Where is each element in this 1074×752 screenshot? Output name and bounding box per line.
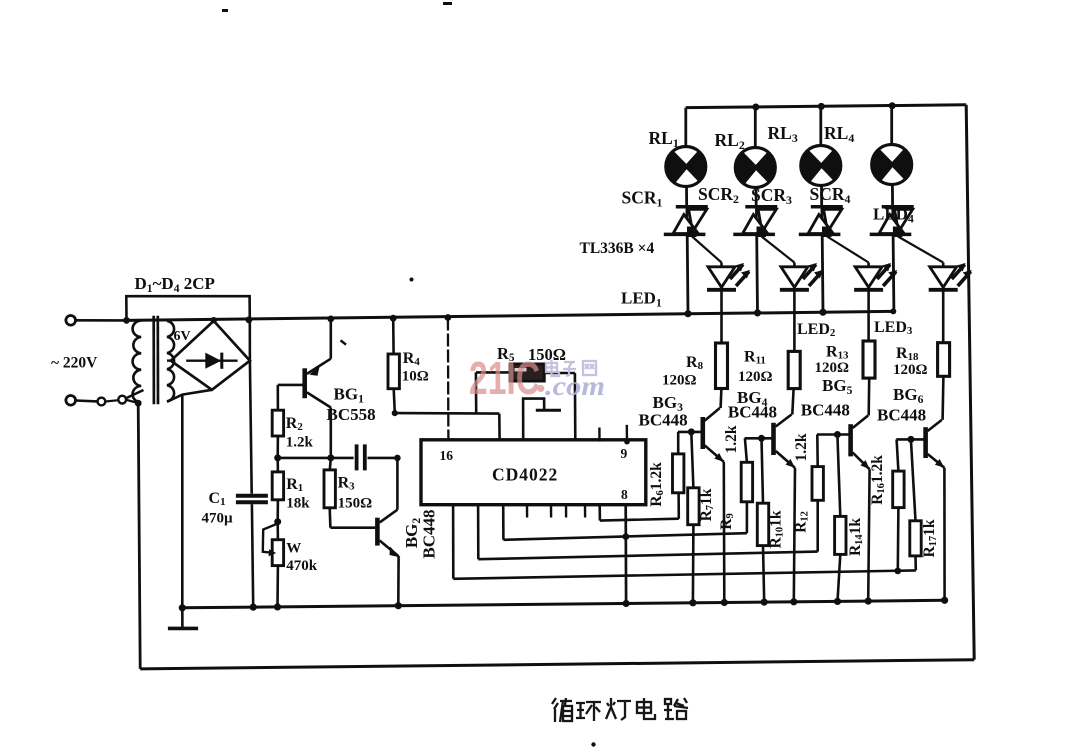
node SCR1 rail xyxy=(685,310,692,317)
svg-text:150Ω: 150Ω xyxy=(338,496,373,512)
label BG2 BC448 xyxy=(402,509,439,558)
label R6 1.2k xyxy=(648,462,666,507)
thyristor SCR4 xyxy=(870,207,914,312)
resistor R4 xyxy=(388,318,399,413)
svg-text:BC448: BC448 xyxy=(728,403,777,422)
node bypass rail crossing xyxy=(246,316,253,323)
pin 9 stub xyxy=(599,425,629,445)
svg-text:9: 9 xyxy=(621,446,628,461)
label R12 1.2k xyxy=(792,433,810,533)
capacitor C2 xyxy=(278,444,398,470)
label SCR1 xyxy=(622,188,663,210)
wire ground bus xyxy=(182,600,944,608)
resistor R7 xyxy=(688,432,699,607)
svg-text:470µ: 470µ xyxy=(202,511,234,527)
svg-text:LED4: LED4 xyxy=(873,205,914,226)
svg-text:21IC: 21IC xyxy=(469,352,540,404)
svg-text:1.2k: 1.2k xyxy=(793,433,810,461)
resistor R11 120 xyxy=(788,351,800,388)
label R14 1k xyxy=(847,518,865,556)
resistor R18 120 xyxy=(938,343,950,377)
svg-text:18k: 18k xyxy=(286,496,310,512)
wire output C to R16 R17 xyxy=(453,505,916,579)
op-amp U1 CD4022 IC body xyxy=(421,440,646,505)
speck marks xyxy=(222,2,596,747)
switch S xyxy=(98,390,144,405)
label BG6 BC448 xyxy=(877,385,926,425)
label R7 1k xyxy=(698,488,716,521)
label R13 120 xyxy=(815,344,850,377)
svg-text:R61.2k: R61.2k xyxy=(648,462,666,507)
wire secondary to ground bus xyxy=(179,395,186,612)
label R8 120 xyxy=(662,354,704,389)
svg-text:TL336B ×4: TL336B ×4 xyxy=(580,240,655,257)
svg-text:120Ω: 120Ω xyxy=(815,360,850,376)
thyristor SCR1 xyxy=(664,207,708,314)
svg-text:1.2k: 1.2k xyxy=(286,435,314,451)
svg-text:120Ω: 120Ω xyxy=(893,362,928,378)
terminal N input xyxy=(66,396,97,406)
resistor R3 xyxy=(324,458,335,528)
label RL2 xyxy=(715,130,745,152)
label R1 18k xyxy=(286,476,310,512)
node SCR3 rail xyxy=(820,309,827,316)
label R2 1.2k xyxy=(286,415,314,451)
bridge rectifier D1-D4 xyxy=(171,321,250,390)
label R10 1k xyxy=(768,510,786,548)
led LED4 xyxy=(929,263,972,343)
label LED3 xyxy=(874,319,913,337)
svg-text:6V: 6V xyxy=(174,329,191,344)
label R3 150ohm xyxy=(338,475,373,512)
svg-text:BC558: BC558 xyxy=(327,405,376,424)
label RL3 xyxy=(768,123,798,145)
node bridge top vertex xyxy=(211,317,217,323)
node SCR2 rail xyxy=(754,309,761,316)
svg-text:LED1: LED1 xyxy=(621,289,662,310)
svg-text:120Ω: 120Ω xyxy=(738,369,773,385)
label R5 150ohm xyxy=(497,344,566,364)
svg-text:BC448: BC448 xyxy=(801,401,850,420)
node R2-R1 xyxy=(274,454,281,461)
node R4 rail xyxy=(390,315,397,322)
pin stubs bottom xyxy=(527,505,585,518)
capacitor C1 xyxy=(236,496,268,503)
resistor R6 xyxy=(673,432,684,493)
wire SCR3 gate xyxy=(827,237,869,263)
transistor BG3 xyxy=(678,389,728,607)
label D1~D4 2CP xyxy=(135,274,215,295)
thyristor SCR3 xyxy=(799,207,843,312)
resistor R16 xyxy=(893,439,904,571)
label W 470k xyxy=(286,541,318,575)
transformer T primary winding xyxy=(133,321,142,404)
resistor R1 xyxy=(272,458,283,522)
wire SCR4 gate xyxy=(898,237,943,263)
label 6V xyxy=(174,329,191,344)
node wireA pin8 crossing xyxy=(622,533,629,540)
lamp RL4 xyxy=(872,106,912,207)
wire right border xyxy=(966,105,974,660)
resistor R14 xyxy=(834,435,846,606)
label LED2 xyxy=(797,321,835,339)
wire output B to R12 xyxy=(478,500,818,559)
wire C1 to bus xyxy=(250,504,257,611)
node BG1 collector xyxy=(327,454,334,461)
svg-text:SCR2: SCR2 xyxy=(698,184,739,206)
wire IC reset loop xyxy=(523,399,561,442)
svg-text:SCR4: SCR4 xyxy=(810,184,851,206)
svg-text:SCR1: SCR1 xyxy=(622,188,663,210)
label R11 120 xyxy=(738,349,773,386)
node BG3 base xyxy=(688,428,695,435)
wire R4 to IC clock xyxy=(395,413,500,441)
node BG5 base xyxy=(834,431,841,438)
lamp RL2 xyxy=(735,107,775,207)
resistor R12 xyxy=(812,435,823,501)
svg-text:~ 220V: ~ 220V xyxy=(51,355,98,372)
resistor R5 xyxy=(476,364,575,442)
svg-text:W: W xyxy=(286,541,301,557)
label SCR3 xyxy=(751,185,792,207)
caption xunhuandenglu circuit title xyxy=(552,698,688,722)
label LED4 xyxy=(873,205,914,226)
wire output A to R9 xyxy=(503,502,747,540)
label SCR4 xyxy=(810,184,851,206)
node rail left junction xyxy=(123,317,130,324)
label RL4 xyxy=(824,123,854,145)
led LED3 xyxy=(854,263,897,342)
label ~220V xyxy=(51,355,98,372)
transistor BG1 xyxy=(278,319,331,458)
transistor BG4 xyxy=(745,389,798,606)
resistor R2 xyxy=(272,385,283,458)
wire output O0 to R6 xyxy=(600,493,679,521)
node wireC R16 xyxy=(894,568,901,575)
node C2 right xyxy=(394,455,401,462)
node BG6 base xyxy=(907,436,914,443)
transistor BG5 xyxy=(817,378,872,605)
svg-text:CD4022: CD4022 xyxy=(492,465,558,485)
svg-text:BC448: BC448 xyxy=(877,406,926,425)
led LED2 xyxy=(780,263,823,352)
svg-text:16: 16 xyxy=(440,448,454,463)
svg-text:1.2k: 1.2k xyxy=(723,425,740,453)
label R18 120 xyxy=(893,345,928,378)
wire SCR1 gate xyxy=(692,237,721,263)
transistor BG2 xyxy=(330,458,402,609)
thyristor SCR2 xyxy=(733,207,777,313)
wire primary-top bypass xyxy=(126,296,250,320)
ground symbol xyxy=(168,608,198,629)
node top rail junctions xyxy=(752,102,895,110)
node SCR4 rail xyxy=(890,308,896,314)
wire SCR2 gate xyxy=(762,237,795,263)
svg-text:BC448: BC448 xyxy=(639,411,688,430)
label R9 1.2k xyxy=(718,425,740,530)
terminal L input xyxy=(66,316,127,326)
svg-text:8: 8 xyxy=(621,487,628,502)
transformer T secondary winding xyxy=(167,321,212,402)
resistor R8 120 xyxy=(716,343,728,389)
label BG4 BC448 xyxy=(728,388,777,422)
node switch junction xyxy=(135,400,142,407)
wire left border xyxy=(138,403,140,669)
led LED1 xyxy=(707,263,750,344)
node BG4 base xyxy=(758,435,765,442)
transistor BG6 xyxy=(896,376,948,604)
node R4 bottom xyxy=(392,410,398,416)
lamp RL1 xyxy=(666,108,706,207)
svg-text:R161.2k: R161.2k xyxy=(869,455,887,505)
label C1 470u xyxy=(202,490,234,527)
label R17 1k xyxy=(921,519,939,557)
resistor R9 xyxy=(741,438,752,502)
label LED1 xyxy=(621,289,662,310)
label SCR2 xyxy=(698,184,739,206)
label R16 1.2k xyxy=(869,455,887,505)
resistor R10 xyxy=(757,438,768,605)
svg-text:SCR3: SCR3 xyxy=(751,185,792,207)
transformer T core xyxy=(154,316,158,404)
node rail junctions xyxy=(685,309,827,318)
wire pin16 supply xyxy=(445,314,452,441)
svg-text:.com: .com xyxy=(545,371,605,401)
svg-text:10Ω: 10Ω xyxy=(402,369,429,385)
wire bottom border xyxy=(140,660,974,669)
svg-text:120Ω: 120Ω xyxy=(662,373,697,389)
svg-text:LED2: LED2 xyxy=(797,321,835,339)
resistor R13 120 xyxy=(863,341,875,378)
wire main V+ rail xyxy=(127,311,894,320)
pin 8 column xyxy=(623,505,630,607)
potentiometer W xyxy=(263,522,284,611)
wire top lamp rail xyxy=(686,105,966,108)
label RL1 xyxy=(649,128,679,150)
svg-text:BC448: BC448 xyxy=(420,509,439,558)
svg-text:R71k: R71k xyxy=(698,488,716,521)
svg-text:470k: 470k xyxy=(286,558,318,574)
label R4 10ohm xyxy=(402,350,429,385)
label BG1 BC558 xyxy=(327,385,376,425)
node R1-W xyxy=(274,518,281,525)
resistor R17 xyxy=(910,439,921,570)
watermark 21IC xyxy=(469,352,544,404)
label TL336B x4 xyxy=(580,240,655,257)
lamp RL3 xyxy=(801,106,841,207)
node BG1 emitter rail xyxy=(327,316,334,323)
watermark dianziwang xyxy=(546,360,596,376)
label BG5 BC448 xyxy=(801,376,853,420)
label BG3 BC448 xyxy=(639,393,688,430)
wire bridge right vertex column xyxy=(250,320,252,494)
